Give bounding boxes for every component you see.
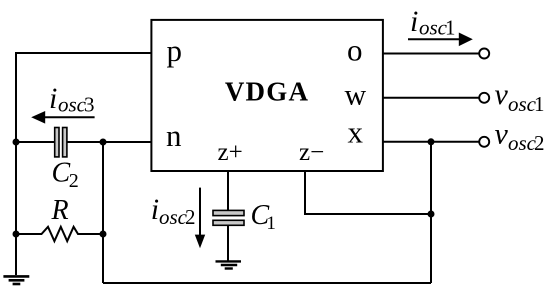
svg-text:1: 1 <box>266 213 276 234</box>
svg-text:R: R <box>51 195 69 226</box>
ground (left) <box>3 276 29 284</box>
svg-text:osc: osc <box>508 92 537 116</box>
svg-text:1: 1 <box>445 16 456 40</box>
current arrow i_osc1 <box>408 33 473 47</box>
svg-text:v: v <box>495 117 509 150</box>
wire middle vertical (C2 right down to bottom rail) <box>102 142 104 283</box>
svg-text:p: p <box>167 33 183 68</box>
node junction at left rail / R row <box>13 231 20 238</box>
wire z+ stub <box>227 171 229 210</box>
svg-text:1: 1 <box>534 92 545 116</box>
node junction z- / right vertical <box>428 211 435 218</box>
svg-text:i: i <box>410 5 418 38</box>
svg-text:o: o <box>347 32 363 67</box>
current arrow i_osc3 <box>31 111 94 124</box>
node junction at R right <box>100 231 107 238</box>
svg-text:w: w <box>345 79 367 112</box>
wire o pin <box>383 53 479 55</box>
svg-text:x: x <box>348 115 364 150</box>
wire left rail lower (to ground) <box>15 142 17 275</box>
svg-text:osc: osc <box>58 93 87 117</box>
capacitor C2 <box>55 128 67 157</box>
svg-text:C: C <box>52 157 71 188</box>
wire p (left vertical rail top to p pin) <box>16 53 151 142</box>
wire x pin <box>383 141 479 143</box>
svg-text:z−: z− <box>299 139 324 166</box>
svg-text:osc: osc <box>508 131 537 155</box>
resistor R <box>16 227 103 241</box>
svg-text:2: 2 <box>185 205 196 229</box>
wire w pin <box>383 97 479 99</box>
svg-text:2: 2 <box>534 131 545 155</box>
svg-text:VDGA: VDGA <box>225 77 309 107</box>
svg-text:osc: osc <box>419 16 448 40</box>
wire C1 to ground <box>227 225 229 261</box>
svg-text:n: n <box>166 118 182 153</box>
current arrow i_osc2 <box>195 188 205 249</box>
terminal x <box>479 137 489 147</box>
svg-text:osc: osc <box>159 205 188 229</box>
ground (under C1) <box>216 261 242 268</box>
node junction on x wire <box>428 138 435 145</box>
terminal w <box>479 93 489 103</box>
capacitor C1 <box>213 210 244 225</box>
node junction at C2 right <box>100 139 107 146</box>
wire right vertical (x node down to bottom rail) <box>430 142 432 283</box>
terminal o <box>479 49 489 59</box>
wire n (C2 row to n pin) <box>16 141 55 143</box>
svg-text:z+: z+ <box>218 139 243 166</box>
op-amp U1 VDGA box <box>151 20 383 171</box>
wire bottom rail <box>103 282 431 284</box>
svg-text:i: i <box>151 193 159 226</box>
svg-text:2: 2 <box>69 170 79 192</box>
svg-text:i: i <box>49 82 57 115</box>
wire z- (stub down then right to node) <box>305 171 431 214</box>
svg-text:3: 3 <box>84 93 95 117</box>
node junction at left rail / C2 row <box>13 139 20 146</box>
svg-text:v: v <box>495 78 509 111</box>
